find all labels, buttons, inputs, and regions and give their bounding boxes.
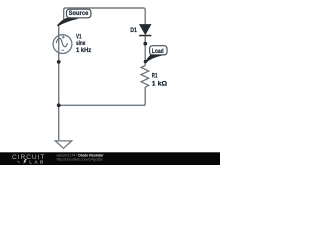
resistor R1 zigzag — [141, 66, 149, 88]
svg-text:R1: R1 — [152, 72, 158, 79]
wire: top horizontal from source branch to diode branch — [64, 8, 146, 25]
svg-text:LAB: LAB — [29, 159, 45, 165]
wire: bottom horizontal return — [59, 104, 146, 106]
Load label box — [150, 46, 167, 55]
svg-text:Source: Source — [69, 10, 89, 17]
junction dot at bottom-left — [57, 103, 61, 107]
diode D1 (triangle + cathode bar) — [140, 25, 151, 35]
svg-text:Load: Load — [152, 48, 164, 55]
ground symbol — [55, 141, 71, 148]
V1 sine glyph — [56, 38, 67, 47]
Source label callout tail — [57, 18, 78, 26]
svg-text:http://circuitlab.com/c/4gcd5c: http://circuitlab.com/c/4gcd5c — [57, 157, 104, 161]
voltage source V1 circle — [53, 35, 72, 54]
Source label box — [67, 9, 91, 18]
svg-text:∿: ∿ — [16, 160, 20, 165]
Load label callout tail — [145, 55, 161, 62]
svg-text:1 kΩ: 1 kΩ — [152, 81, 167, 88]
footer black bar — [0, 152, 220, 165]
svg-text:D1: D1 — [130, 27, 137, 34]
V1 plus sign — [62, 36, 65, 39]
wire: right vertical segments around diode and resistor — [143, 36, 145, 105]
junction dot above Load label — [143, 42, 147, 46]
V1 minus sign — [62, 49, 65, 51]
svg-text:1 kHz: 1 kHz — [76, 47, 91, 54]
wire: left vertical (V1 branch down to ground) — [58, 24, 60, 140]
junction dot below V1 — [57, 60, 61, 64]
